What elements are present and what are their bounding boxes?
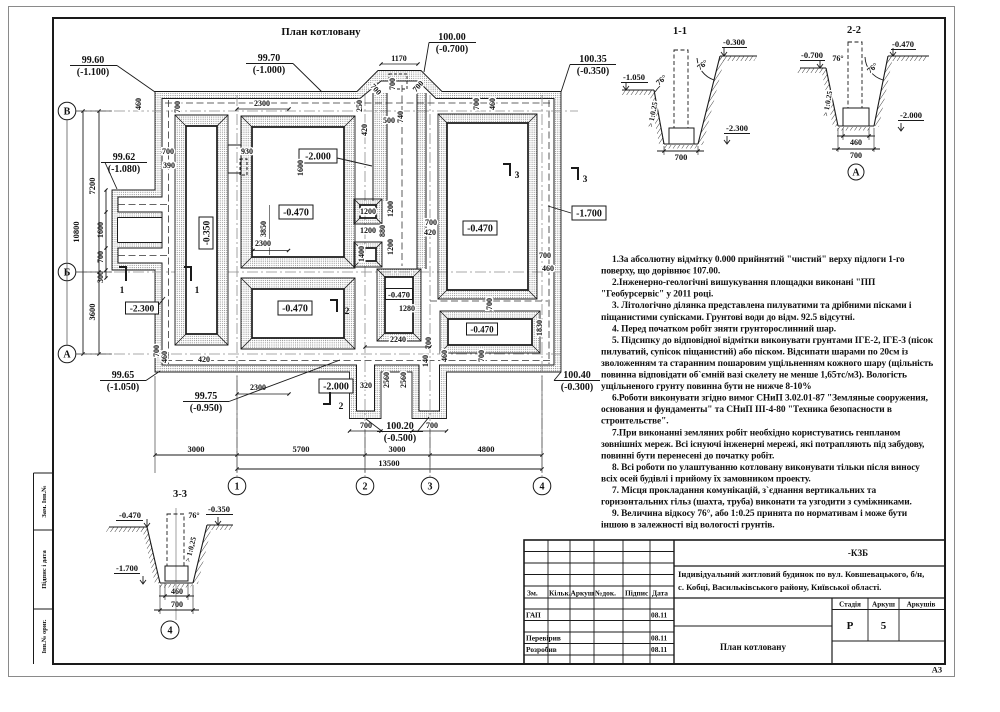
svg-text:2300: 2300 <box>254 99 270 108</box>
svg-text:880: 880 <box>378 225 387 237</box>
axis circle 4 (section 3-3) <box>161 621 179 639</box>
axis circle Б <box>58 263 76 281</box>
svg-text:1400: 1400 <box>357 246 366 262</box>
svg-text:-1.050: -1.050 <box>623 72 645 82</box>
svg-text:План котловану: План котловану <box>281 26 361 38</box>
svg-text:-0.470: -0.470 <box>282 303 308 314</box>
svg-text:460: 460 <box>488 98 497 110</box>
bump corridor wall right <box>417 93 426 269</box>
svg-text:Аркуш: Аркуш <box>571 588 595 597</box>
svg-text:1600: 1600 <box>296 160 305 176</box>
svg-text:08.11: 08.11 <box>651 634 668 643</box>
svg-text:(-1.000): (-1.000) <box>253 65 286 76</box>
axis circle 2 <box>356 477 374 495</box>
svg-text:100.35: 100.35 <box>579 54 607 65</box>
svg-text:(-1.100): (-1.100) <box>77 67 110 78</box>
svg-text:1280: 1280 <box>399 304 415 313</box>
svg-text:5: 5 <box>881 620 887 632</box>
svg-text:-2.000: -2.000 <box>323 381 349 392</box>
svg-text:повинні бути перенесені до поч: повинні бути перенесені до початку робіт… <box>601 450 774 461</box>
svg-text:-1.700: -1.700 <box>576 208 602 219</box>
svg-text:(-0.350): (-0.350) <box>577 66 610 77</box>
svg-text:4. Перед початком робіт зняти: 4. Перед початком робіт зняти грунторосл… <box>612 323 836 334</box>
svg-text:зовнішніх мереж. Всі існуючі і: зовнішніх мереж. Всі існуючі інженерні м… <box>601 439 924 450</box>
pocket P1 <box>354 199 382 224</box>
svg-text:99.75: 99.75 <box>195 391 218 402</box>
svg-text:повинна відповідати об`ємній в: повинна відповідати об`ємній вазі скелет… <box>601 370 907 381</box>
svg-text:300: 300 <box>96 271 105 283</box>
svg-text:1-1: 1-1 <box>673 26 687 37</box>
pocket P2 <box>354 242 382 267</box>
svg-text:-0.700: -0.700 <box>801 50 823 60</box>
svg-text:1200: 1200 <box>386 239 395 255</box>
svg-text:8. Всі роботи по улаштуванню к: 8. Всі роботи по улаштуванню котловану в… <box>612 462 920 473</box>
svg-text:-0.470: -0.470 <box>119 510 141 520</box>
svg-text:390: 390 <box>163 161 175 170</box>
svg-text:-0.470: -0.470 <box>467 223 493 234</box>
svg-text:3-3: 3-3 <box>173 489 187 500</box>
svg-text:700: 700 <box>426 421 438 430</box>
svg-text:№док.: №док. <box>594 588 616 597</box>
svg-text:Підпис і дата: Підпис і дата <box>41 550 48 589</box>
svg-text:700: 700 <box>539 251 551 260</box>
svg-text:-1.700: -1.700 <box>116 563 138 573</box>
trench edge dashes <box>165 102 550 104</box>
svg-text:1200: 1200 <box>360 226 376 235</box>
svg-text:Зм.: Зм. <box>527 588 538 597</box>
svg-text:-0.470: -0.470 <box>283 207 309 218</box>
svg-text:3000: 3000 <box>188 444 205 454</box>
svg-text:700: 700 <box>675 152 688 162</box>
svg-text:План котловану: План котловану <box>720 642 787 652</box>
svg-text:"Геобурсервіс" у 2011 році.: "Геобурсервіс" у 2011 році. <box>601 289 713 300</box>
svg-text:250: 250 <box>355 100 364 112</box>
svg-text:основания и фундаменты" та СНи: основания и фундаменты" та СНиП ІІІ-4-80… <box>601 404 892 415</box>
svg-text:7200: 7200 <box>87 178 97 195</box>
svg-text:1830: 1830 <box>535 320 544 336</box>
R2 notch <box>228 145 241 173</box>
svg-text:(-0.500): (-0.500) <box>384 433 417 444</box>
svg-text:100.40: 100.40 <box>563 370 591 381</box>
svg-text:-0.470: -0.470 <box>470 324 494 334</box>
svg-text:Зам. Інв.№: Зам. Інв.№ <box>41 485 48 517</box>
svg-text:строительстве".: строительстве". <box>601 417 669 427</box>
svg-text:2560: 2560 <box>382 372 391 388</box>
svg-text:99.60: 99.60 <box>82 55 105 66</box>
svg-text:5. Підсипку до відповідної від: 5. Підсипку до відповідної відмітки вико… <box>612 335 934 346</box>
svg-text:700: 700 <box>477 350 486 362</box>
axis lines <box>76 110 578 112</box>
svg-text:-КЗБ: -КЗБ <box>848 548 868 558</box>
svg-text:460: 460 <box>440 350 449 362</box>
axis circle В <box>58 102 76 120</box>
svg-text:Р: Р <box>847 620 854 632</box>
svg-text:320: 320 <box>360 381 372 390</box>
axis circle 1 <box>228 477 246 495</box>
svg-text:700: 700 <box>388 78 397 90</box>
svg-text:А: А <box>63 350 71 361</box>
svg-text:930: 930 <box>241 147 253 156</box>
svg-text:-2.000: -2.000 <box>305 151 331 162</box>
svg-text:3: 3 <box>428 482 433 493</box>
svg-text:100.00: 100.00 <box>438 32 466 43</box>
svg-text:3: 3 <box>515 171 520 181</box>
svg-text:2: 2 <box>345 307 350 317</box>
svg-text:4: 4 <box>168 626 173 637</box>
svg-text:Індивідуальний житловий будино: Індивідуальний житловий будинок по вул. … <box>678 569 924 579</box>
svg-text:зволоженням та старанним пошар: зволоженням та старанним пошаровим ущіль… <box>601 358 933 369</box>
svg-text:А3: А3 <box>932 665 942 675</box>
axis circle A (section 2-2) <box>848 164 864 180</box>
svg-text:Розробив: Розробив <box>526 645 557 654</box>
svg-text:10800: 10800 <box>71 221 81 242</box>
room island R6 <box>377 269 421 341</box>
svg-text:460: 460 <box>850 138 862 147</box>
svg-text:2240: 2240 <box>390 335 406 344</box>
svg-text:2: 2 <box>363 482 368 493</box>
svg-text:3: 3 <box>583 175 588 185</box>
svg-text:08.11: 08.11 <box>651 611 668 620</box>
svg-text:піщанистими супісками. Грунтов: піщанистими супісками. Грунтові води до … <box>601 312 855 323</box>
svg-text:740: 740 <box>396 111 405 123</box>
column 3-3 <box>175 508 177 620</box>
svg-text:4800: 4800 <box>478 444 495 454</box>
svg-text:В: В <box>64 107 71 118</box>
svg-text:700: 700 <box>171 600 183 609</box>
svg-text:поверху, що дорівнює 107.00.: поверху, що дорівнює 107.00. <box>601 266 720 277</box>
svg-text:1170: 1170 <box>391 54 407 63</box>
section mark 1 <box>125 266 127 281</box>
svg-text:700: 700 <box>425 218 437 227</box>
left dimension lines <box>82 111 84 354</box>
svg-text:-0.470: -0.470 <box>892 39 914 49</box>
svg-text:3850: 3850 <box>259 221 268 237</box>
left stamp boxes <box>33 473 35 664</box>
svg-text:Аркуш: Аркуш <box>872 601 895 609</box>
boxed labels <box>299 149 337 163</box>
svg-text:-2.300: -2.300 <box>130 304 155 314</box>
svg-text:-0.470: -0.470 <box>388 289 410 299</box>
svg-text:420: 420 <box>360 124 369 136</box>
svg-text:(-0.300): (-0.300) <box>561 382 594 393</box>
svg-text:Стадія: Стадія <box>839 600 861 609</box>
svg-text:-0.300: -0.300 <box>723 37 745 47</box>
svg-text:ущільненого грунту повинна бут: ущільненого грунту повинна бути не нижче… <box>601 381 812 392</box>
svg-text:-2.000: -2.000 <box>900 110 922 120</box>
svg-text:Інв.№ ориг.: Інв.№ ориг. <box>41 619 48 653</box>
svg-text:460: 460 <box>542 264 554 273</box>
svg-text:всіх осей будівлі і прийому їх: всіх осей будівлі і прийому їх замовнико… <box>601 473 811 484</box>
svg-text:іншою в залежності від вологос: іншою в залежності від вологості грунтів… <box>601 520 775 531</box>
svg-text:2.Інженерно-геологічні вишукув: 2.Інженерно-геологічні вишукування площа… <box>612 277 876 288</box>
room island R3 <box>241 278 355 349</box>
section mark 2 <box>336 299 338 312</box>
svg-text:1200: 1200 <box>386 201 395 217</box>
svg-text:460: 460 <box>171 587 183 596</box>
svg-text:13500: 13500 <box>378 458 399 468</box>
svg-text:Дата: Дата <box>652 588 668 597</box>
svg-text:76°: 76° <box>188 511 199 520</box>
svg-text:76°: 76° <box>832 54 843 63</box>
svg-text:2300: 2300 <box>255 239 271 248</box>
svg-text:(-0.700): (-0.700) <box>436 44 469 55</box>
comb middle ground block <box>118 218 162 243</box>
svg-text:1.За абсолютну відмітку 0.000: 1.За абсолютну відмітку 0.000 прийнятий … <box>612 254 905 265</box>
room island R4 <box>438 114 537 299</box>
axis circle 4 <box>533 477 551 495</box>
svg-text:700: 700 <box>485 298 494 310</box>
title block <box>524 540 945 664</box>
svg-text:2-2: 2-2 <box>847 25 861 36</box>
svg-text:3600: 3600 <box>87 304 97 321</box>
svg-text:460: 460 <box>160 351 169 363</box>
column 1-1 <box>674 50 688 128</box>
svg-text:99.62: 99.62 <box>113 152 136 163</box>
svg-text:460: 460 <box>134 98 143 110</box>
svg-text:2: 2 <box>339 402 344 412</box>
svg-text:Кільк.: Кільк. <box>549 588 571 597</box>
svg-text:700: 700 <box>96 251 105 263</box>
bottom dimension rows <box>155 454 542 456</box>
svg-text:(-1.050): (-1.050) <box>107 382 140 393</box>
svg-text:6.Роботи виконувати згідно вим: 6.Роботи виконувати згідно вимог СНиП 3.… <box>612 393 928 404</box>
svg-text:-2.300: -2.300 <box>726 123 748 133</box>
svg-text:9. Величина відкосу 76°, або 1: 9. Величина відкосу 76°, або 1:0.25 прин… <box>612 508 908 519</box>
section mark 3 <box>509 163 511 176</box>
svg-text:700: 700 <box>162 147 174 156</box>
svg-text:Аркушів: Аркушів <box>907 600 936 609</box>
svg-text:7. Місця прокладання комунікац: 7. Місця прокладання комунікацій, з`єдна… <box>612 485 876 496</box>
bump corridor wall left <box>373 93 387 201</box>
svg-text:1200: 1200 <box>360 207 376 216</box>
svg-text:99.70: 99.70 <box>258 53 281 64</box>
svg-text:100.20: 100.20 <box>386 421 414 432</box>
svg-text:7.При виконанні земляних робіт: 7.При виконанні земляних робіт необхідно… <box>612 427 901 438</box>
svg-text:(-0.950): (-0.950) <box>190 403 223 414</box>
svg-text:-0.350: -0.350 <box>208 504 230 514</box>
svg-text:Підпис: Підпис <box>625 588 649 597</box>
svg-text:700: 700 <box>173 101 182 113</box>
svg-text:горизонтальних гільз (шахта, т: горизонтальних гільз (шахта, труба) вико… <box>601 497 912 508</box>
svg-text:700: 700 <box>850 151 862 160</box>
svg-text:ГАП: ГАП <box>526 611 541 620</box>
svg-text:500: 500 <box>383 116 395 125</box>
svg-text:700: 700 <box>472 98 481 110</box>
svg-text:Перевірив: Перевірив <box>526 634 561 643</box>
room island R1 <box>175 115 228 345</box>
svg-text:1: 1 <box>120 286 125 296</box>
bump inner pit dashed <box>389 74 407 89</box>
svg-text:3000: 3000 <box>389 444 406 454</box>
svg-text:пилуватий, супісок піщанистий): пилуватий, супісок піщанистий) або піско… <box>601 346 908 357</box>
svg-text:1: 1 <box>195 286 200 296</box>
svg-text:4: 4 <box>540 482 545 493</box>
svg-text:А: А <box>852 168 860 179</box>
svg-text:420: 420 <box>198 355 210 364</box>
svg-text:420: 420 <box>424 228 436 237</box>
axis circle 3 <box>421 477 439 495</box>
svg-text:140: 140 <box>421 355 430 367</box>
column 2-2 <box>848 42 862 108</box>
excavation perimeter band <box>112 71 561 419</box>
svg-text:-0.350: -0.350 <box>202 220 212 245</box>
svg-text:3. Літологічно ділянка предста: 3. Літологічно ділянка представлена пилу… <box>612 300 912 311</box>
svg-text:с. Кобці, Васильківського райо: с. Кобці, Васильківського району, Київсь… <box>678 582 881 592</box>
svg-text:1: 1 <box>235 482 240 493</box>
axis circle А <box>58 345 76 363</box>
svg-text:08.11: 08.11 <box>651 645 668 654</box>
room island R5 <box>440 311 540 353</box>
svg-text:99.65: 99.65 <box>112 370 135 381</box>
svg-text:1600: 1600 <box>96 222 105 238</box>
svg-text:(-1.080): (-1.080) <box>108 164 141 175</box>
svg-text:2560: 2560 <box>399 372 408 388</box>
svg-text:5700: 5700 <box>293 444 310 454</box>
room island R2 <box>241 116 355 268</box>
